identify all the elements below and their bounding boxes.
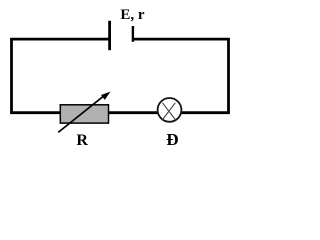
resistor R (rheostat body) xyxy=(60,105,108,123)
battery E,r : right short plate xyxy=(132,26,134,42)
svg-text:R: R xyxy=(76,132,88,149)
lamp X stroke 1 xyxy=(163,103,176,120)
rheostat arrow shaft xyxy=(58,94,106,132)
svg-text:E, r: E, r xyxy=(120,7,145,23)
wire: outer circuit loop (top gap for battery) xyxy=(12,39,229,113)
lamp X stroke 2 xyxy=(163,103,176,120)
lamp D (circle) xyxy=(158,98,182,122)
battery E,r : left long plate xyxy=(108,21,111,50)
svg-text:Đ: Đ xyxy=(166,130,178,149)
rheostat arrowhead xyxy=(101,92,110,100)
